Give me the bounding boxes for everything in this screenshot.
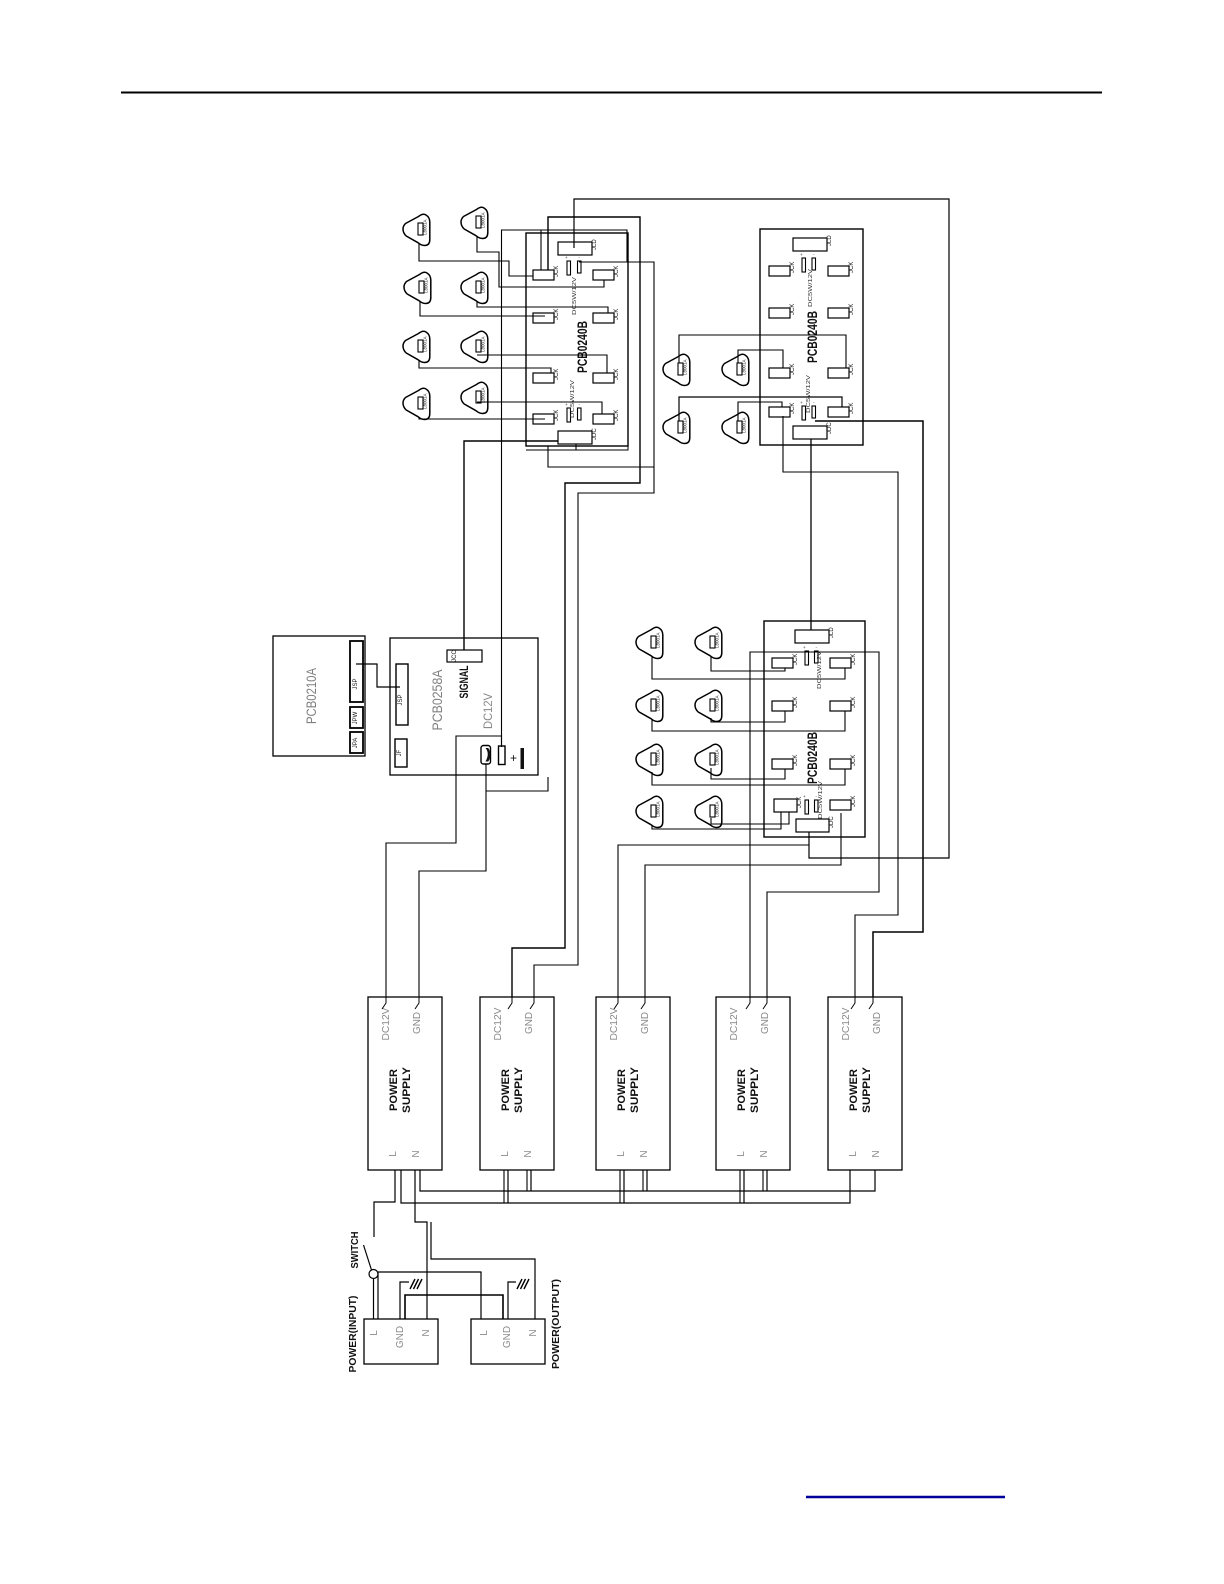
wire barrel to PS1 GND: [419, 764, 486, 997]
board PCB0240B U3 outline: [764, 621, 865, 837]
svg-text:JCK: JCK: [554, 266, 560, 277]
svg-text:JDC: JDC: [827, 422, 833, 434]
lamp LP20: [695, 796, 722, 827]
svg-text:PCB0240B: PCB0240B: [575, 321, 590, 373]
svg-text:SUPPLY: SUPPLY: [749, 1066, 761, 1113]
svg-text:L8001A: L8001A: [423, 393, 428, 409]
connector JPA (PCB0210A): [350, 732, 363, 753]
wire LP9 to U2 R3: [679, 335, 846, 368]
wire N to output: [431, 1222, 535, 1319]
svg-text:JCK: JCK: [554, 309, 560, 320]
svg-text:L: L: [616, 1151, 627, 1157]
wire LP15 to U3 R2: [652, 711, 845, 731]
wire hooks PS5 top entries: [851, 997, 873, 1009]
wire LP11 to U2 R4: [679, 397, 842, 421]
svg-text:JSP: JSP: [398, 694, 404, 705]
power supply PS1 label POWER SUPPLY: [388, 1066, 413, 1113]
lamp LP17: [636, 744, 663, 775]
wire PS3 DC12V from JDC3 node: [618, 845, 809, 997]
connector JCK (U2 right row 1): [828, 262, 855, 276]
svg-text:GND: GND: [502, 1326, 513, 1348]
connector JSP (PCB0210A): [350, 641, 363, 702]
svg-text:N: N: [411, 1150, 422, 1157]
wire LP3 to U1 L2: [420, 301, 545, 316]
svg-text:POWER: POWER: [388, 1069, 400, 1111]
svg-text:POWER: POWER: [500, 1069, 512, 1111]
svg-text:N: N: [871, 1150, 882, 1157]
svg-text:JCK: JCK: [790, 364, 796, 375]
svg-text:DC5W/12V: DC5W/12V: [817, 650, 823, 689]
wire PS2 N stub b: [526, 1170, 528, 1191]
connector JSP (PCB0258A): [396, 664, 408, 725]
header rule: [121, 92, 1102, 94]
lamp LP14: [695, 627, 722, 658]
wire DC minus bus: [502, 230, 628, 747]
wire U2 bars to PS5 GND: [815, 421, 923, 997]
svg-text:+: +: [800, 252, 803, 257]
wire LP20 to U3 L4b: [711, 812, 789, 824]
wire U1 JCK L1 bus A: [512, 217, 640, 997]
svg-text:JCK: JCK: [851, 654, 857, 665]
connector JCK (U3 left row 3): [772, 755, 799, 769]
power supply PS2 label POWER SUPPLY: [500, 1066, 525, 1113]
svg-text:JCK: JCK: [793, 654, 799, 665]
svg-text:JCK: JCK: [614, 369, 620, 380]
connector JCK (U1 left row 4): [533, 410, 560, 424]
svg-text:L: L: [369, 1330, 380, 1336]
lamp LP4: [461, 272, 488, 303]
connector JCK (U2 left row 3): [769, 364, 796, 378]
svg-text:DC5W/12V: DC5W/12V: [806, 374, 812, 413]
lamp LP9: [663, 354, 690, 385]
connector JDC (U1): [558, 428, 598, 444]
board PCB0240B U2 outline: [760, 229, 863, 445]
wire PS3 L stub b: [619, 1170, 621, 1203]
wire PS3 N stub b: [642, 1170, 644, 1191]
svg-text:JCC: JCC: [452, 650, 458, 662]
svg-text:JPA: JPA: [353, 738, 359, 749]
svg-text:GND: GND: [640, 1012, 651, 1034]
svg-text:SUPPLY: SUPPLY: [861, 1066, 873, 1113]
board PCB0240B U1 outline: [526, 233, 628, 446]
svg-text:DC12V: DC12V: [483, 693, 495, 729]
svg-text:L: L: [500, 1151, 511, 1157]
svg-text:JCK: JCK: [849, 364, 855, 375]
connector JCK (U3 left row 4): [774, 797, 803, 812]
svg-text:GND: GND: [872, 1012, 883, 1034]
wire PS2 L stub: [507, 1170, 509, 1203]
connector JCK (U1 left row 1): [533, 266, 560, 280]
wire N bus: [420, 1170, 875, 1191]
connector JCK (U3 right row 3): [830, 755, 857, 769]
connector JCK (U3 right row 4): [830, 796, 857, 810]
wire switch to input L: [373, 1278, 375, 1319]
connector JCK (U3 left row 2): [772, 697, 799, 711]
ground (output side): [517, 1279, 529, 1289]
wire U3 R4 to PS3 GND: [645, 813, 841, 997]
svg-text:L8001A: L8001A: [715, 749, 720, 765]
svg-text:JCK: JCK: [849, 262, 855, 273]
svg-text:SUPPLY: SUPPLY: [401, 1066, 413, 1113]
connector JCK (U2 right row 4): [828, 403, 855, 417]
svg-text:N: N: [528, 1329, 539, 1336]
svg-text:L8001A: L8001A: [742, 359, 747, 375]
svg-text:JCK: JCK: [851, 755, 857, 766]
svg-text:SIGNAL: SIGNAL: [459, 666, 471, 699]
svg-text:JCK: JCK: [793, 755, 799, 766]
wire LP8 to U1 R4: [477, 402, 602, 414]
svg-text:-: -: [816, 645, 818, 650]
connector JLD (U2): [793, 235, 833, 251]
wire PS3 L stub: [623, 1170, 625, 1203]
connector JDC (U2): [793, 422, 833, 439]
switch SW1: [364, 1245, 379, 1279]
svg-text:POWER: POWER: [848, 1069, 860, 1111]
blue footer line: [806, 1496, 1005, 1498]
wire LP18 to U3 L3: [711, 768, 785, 779]
svg-text:PCB0210A: PCB0210A: [304, 668, 319, 724]
wire DC bridge to PS4: [750, 652, 879, 997]
svg-text:JLD: JLD: [592, 239, 598, 250]
svg-text:JSP: JSP: [353, 678, 359, 689]
polarity bars DC in (U3 bottom): [803, 794, 818, 814]
svg-text:L: L: [388, 1151, 399, 1157]
svg-text:L8001A: L8001A: [656, 749, 661, 765]
power supply PS4 label POWER SUPPLY: [736, 1066, 761, 1113]
wire U1 JDC spur: [548, 446, 654, 467]
connector JPW (PCB0210A): [350, 707, 363, 728]
svg-text:L8001A: L8001A: [423, 336, 428, 352]
svg-text:+: +: [565, 255, 568, 260]
power supply PS2 outline: [480, 997, 554, 1170]
wire PS2 N stub: [530, 1170, 532, 1191]
svg-text:JPW: JPW: [353, 711, 359, 724]
svg-text:L8001A: L8001A: [656, 632, 661, 648]
wire U1 bottom service: [526, 262, 628, 450]
lamp LP18: [695, 744, 722, 775]
svg-text:JCK: JCK: [614, 266, 620, 277]
svg-text:POWER(OUTPUT): POWER(OUTPUT): [550, 1279, 562, 1369]
svg-text:PCB0240B: PCB0240B: [805, 311, 820, 363]
connector JCK (U1 left row 3): [533, 369, 560, 383]
connector JCK (U2 left row 4): [769, 403, 796, 417]
wire PS4 N stub b: [762, 1170, 764, 1191]
wire LP17 to U3 R3: [652, 769, 845, 785]
svg-text:-: -: [579, 255, 581, 260]
svg-text:JCK: JCK: [849, 403, 855, 414]
svg-text:JCK: JCK: [614, 309, 620, 320]
connector JDC (U3): [796, 816, 835, 832]
lamp LP5: [403, 331, 430, 362]
wire input GND to earth: [400, 1282, 409, 1319]
connector JCK (U1 right row 3): [593, 369, 620, 383]
svg-text:DC5W/12V: DC5W/12V: [570, 379, 576, 418]
wire hooks PS4 top entries: [746, 997, 767, 1009]
ground (input side): [410, 1279, 422, 1289]
lamp LP11: [663, 412, 690, 443]
svg-text:SWITCH: SWITCH: [350, 1232, 361, 1269]
svg-text:N: N: [639, 1150, 650, 1157]
svg-text:DC12V: DC12V: [609, 1007, 620, 1040]
board PCB0258A outline: [390, 638, 538, 775]
wire LP2 to U1 R1: [477, 236, 604, 287]
wire LP10 to U2 L3: [738, 350, 783, 368]
power supply PS5 outline: [828, 997, 902, 1170]
wire hooks PS3 top entries: [614, 997, 645, 1009]
svg-text:-: -: [813, 400, 815, 405]
wire PS2 L stub b: [503, 1170, 505, 1203]
connector JCK (U2 right row 2): [828, 304, 855, 318]
connector JLD (U3): [795, 627, 835, 643]
svg-text:L: L: [848, 1151, 859, 1157]
svg-text:POWER: POWER: [736, 1069, 748, 1111]
wire 258A aux stub: [486, 777, 548, 791]
svg-text:+: +: [565, 402, 568, 407]
connector JCK (U3 right row 1): [830, 654, 857, 668]
wire LP6 to U1 R3: [477, 355, 607, 373]
lamp LP15: [636, 690, 663, 721]
svg-text:L8001A: L8001A: [481, 277, 486, 293]
svg-text:+: +: [800, 400, 803, 405]
svg-text:L8001A: L8001A: [715, 695, 720, 711]
wire LP14 to U3 L1: [711, 656, 785, 671]
wire PS3 N stub: [646, 1170, 648, 1191]
connector JCK (U3 right row 2): [830, 697, 857, 711]
lamp LP6: [461, 331, 488, 362]
wire PS4 L stub b: [739, 1170, 741, 1203]
svg-text:N: N: [759, 1150, 770, 1157]
svg-text:L: L: [736, 1151, 747, 1157]
lamp LP3: [404, 272, 431, 303]
connector JCK (U2 left row 2): [769, 304, 796, 318]
polarity bars DC in (U3 top): [803, 645, 818, 665]
wire DC plus to PS1: [386, 736, 502, 997]
DC jack barrel (PCB0258A): [481, 746, 491, 765]
wire LP5 to U1 L3: [419, 360, 551, 373]
power supply PS3 label POWER SUPPLY: [616, 1066, 641, 1113]
wire GND bus: [405, 1295, 503, 1319]
wire JDC1 stub: [575, 444, 577, 450]
wire PS1 N to input N: [415, 1170, 427, 1319]
connector JCK (U2 left row 1): [769, 262, 796, 276]
connector JCC (PCB0258A): [447, 650, 482, 662]
lamp LP19: [636, 796, 663, 827]
svg-text:DC5W/12V: DC5W/12V: [808, 268, 814, 307]
svg-text:SUPPLY: SUPPLY: [629, 1066, 641, 1113]
lamp LP2: [461, 207, 488, 238]
svg-text:SUPPLY: SUPPLY: [513, 1066, 525, 1113]
connector JCK (U1 left row 2): [533, 309, 560, 323]
svg-text:JCK: JCK: [790, 403, 796, 414]
svg-text:PCB0258A: PCB0258A: [430, 670, 445, 731]
wire JSP to JSP: [356, 664, 400, 687]
wire hooks PS1 top entries: [382, 997, 419, 1009]
svg-text:JCK: JCK: [849, 304, 855, 315]
connector JCK (U1 right row 4): [593, 410, 620, 424]
wire hooks PS2 top entries: [508, 997, 534, 1009]
svg-text:JDC: JDC: [829, 816, 835, 828]
polarity bars DC in (U1 top): [565, 255, 581, 275]
connector JCK (U1 right row 1): [593, 266, 620, 280]
svg-text:POWER: POWER: [616, 1069, 628, 1111]
power supply PS5 label POWER SUPPLY: [848, 1066, 873, 1113]
polarity marks + - (PCB0258A): [510, 748, 524, 769]
svg-text:L8001A: L8001A: [715, 632, 720, 648]
lamp LP8: [461, 382, 488, 413]
lamp LP16: [695, 690, 722, 721]
lamp LP13: [636, 627, 663, 658]
wire bridge to PS5: [783, 416, 898, 997]
power supply PS1 outline: [368, 997, 442, 1170]
lamp LP7: [403, 388, 430, 419]
svg-text:JCK: JCK: [614, 410, 620, 421]
svg-text:JF: JF: [397, 749, 403, 756]
polarity bars DC in (U2 top): [800, 252, 816, 272]
board PCB0210A outline: [273, 636, 365, 756]
svg-text:DC5W/12V: DC5W/12V: [818, 780, 824, 819]
svg-text:DC12V: DC12V: [729, 1007, 740, 1040]
wire JDC1 to JCC: [464, 441, 558, 650]
svg-text:JCK: JCK: [554, 410, 560, 421]
wire LP7 to U1 L4: [419, 417, 545, 419]
svg-text:DC12V: DC12V: [493, 1007, 504, 1040]
svg-text:+: +: [803, 645, 806, 650]
svg-text:JCK: JCK: [851, 697, 857, 708]
svg-text:L8001A: L8001A: [424, 277, 429, 293]
svg-text:L8001A: L8001A: [683, 359, 688, 375]
svg-text:GND: GND: [524, 1012, 535, 1034]
svg-text:L8001A: L8001A: [683, 417, 688, 433]
svg-text:L8001A: L8001A: [481, 336, 486, 352]
svg-text:-: -: [813, 252, 815, 257]
lamp LP1: [403, 214, 430, 245]
svg-text:JLD: JLD: [829, 627, 835, 638]
svg-text:L8001A: L8001A: [656, 695, 661, 711]
wire U1 bars to PS2 GND: [534, 262, 654, 997]
svg-text:L8001A: L8001A: [423, 219, 428, 235]
svg-text:+: +: [803, 794, 806, 799]
wire LP1 to U1 L1: [419, 243, 533, 276]
wire switched L to output: [378, 1272, 481, 1319]
connector POWER(OUTPUT) box: [471, 1319, 545, 1364]
wire LP12 to U2 L4: [738, 402, 782, 421]
connector JF (PCB0258A): [395, 739, 407, 767]
svg-text:JCK: JCK: [790, 304, 796, 315]
wire output GND to earth: [508, 1282, 516, 1319]
svg-text:JCK: JCK: [554, 369, 560, 380]
power supply PS3 outline: [596, 997, 670, 1170]
wire PS4 L stub: [743, 1170, 745, 1203]
svg-text:-: -: [579, 402, 581, 407]
svg-text:JCK: JCK: [851, 796, 857, 807]
wire JLD1 to JDC3 trunk: [574, 199, 949, 858]
connector JCK (U2 right row 3): [828, 364, 855, 378]
wire U1 JCK L1 stub: [540, 230, 542, 270]
svg-text:JCK: JCK: [793, 697, 799, 708]
svg-text:GND: GND: [760, 1012, 771, 1034]
svg-text:JLD: JLD: [827, 235, 833, 246]
svg-text:POWER(INPUT): POWER(INPUT): [347, 1296, 359, 1373]
svg-text:L8001A: L8001A: [742, 417, 747, 433]
svg-text:GND: GND: [412, 1012, 423, 1034]
svg-text:DC12V: DC12V: [841, 1007, 852, 1040]
svg-text:L8001A: L8001A: [656, 801, 661, 817]
connector POWER(INPUT) box: [364, 1319, 438, 1364]
connector JLD (U1): [558, 239, 598, 255]
wire LP13 to U3 R1: [652, 656, 845, 679]
svg-text:L8001A: L8001A: [715, 801, 720, 817]
svg-text:PCB0240B: PCB0240B: [805, 732, 820, 784]
connector JCK (U3 left row 1): [772, 654, 799, 668]
wire switched L drop: [377, 1272, 379, 1319]
svg-text:L8001A: L8001A: [481, 212, 486, 228]
polarity bars DC in (U2 bottom): [800, 400, 816, 420]
svg-text:GND: GND: [395, 1326, 406, 1348]
svg-text:N: N: [523, 1150, 534, 1157]
svg-text:DC5W/12V: DC5W/12V: [572, 276, 578, 315]
svg-text:N: N: [421, 1329, 432, 1336]
wire LP19 to U3 L4: [652, 812, 781, 829]
power supply PS4 outline: [716, 997, 790, 1170]
wire PS4 N stub: [766, 1170, 768, 1191]
svg-text:L: L: [479, 1330, 490, 1336]
lamp LP10: [722, 354, 749, 385]
wire LP4 to U1 R2: [477, 301, 608, 313]
wire LP16 to U3 L2: [711, 711, 785, 722]
polarity bars DC in (U1 bottom): [565, 402, 581, 422]
svg-text:DC12V: DC12V: [381, 1007, 392, 1040]
svg-text:JDC: JDC: [592, 428, 598, 440]
wire JDC2 to JLD3: [810, 439, 812, 630]
svg-text:+: +: [510, 751, 517, 765]
DC pin terminal (PCB0258A): [499, 746, 506, 765]
wire L bus: [401, 1170, 850, 1203]
svg-text:L8001A: L8001A: [481, 387, 486, 403]
lamp LP12: [722, 412, 749, 443]
wire PS1 L to switch: [374, 1170, 395, 1237]
svg-text:JCK: JCK: [790, 262, 796, 273]
connector JCK (U1 right row 2): [593, 309, 620, 323]
